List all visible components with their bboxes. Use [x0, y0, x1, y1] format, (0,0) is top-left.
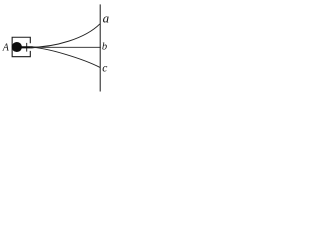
ray to c (deflected down) — [30, 47, 100, 67]
svg-text:b: b — [102, 42, 107, 53]
lead box — [12, 37, 30, 56]
screen — [99, 4, 101, 91]
beam from source — [19, 46, 37, 48]
svg-text:A: A — [2, 43, 10, 54]
ray to b (straight) — [30, 46, 101, 48]
svg-text:c: c — [102, 63, 107, 75]
ray to a (deflected up) — [30, 24, 100, 48]
slit partition — [26, 43, 28, 52]
svg-text:a: a — [103, 10, 110, 25]
radioactive source A (dot) — [12, 42, 22, 52]
